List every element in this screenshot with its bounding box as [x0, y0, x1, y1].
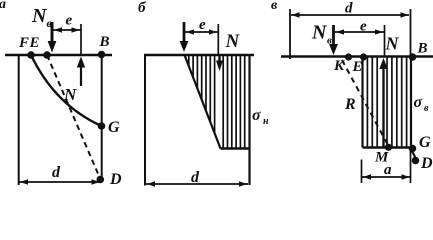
fig a e dimension	[53, 29, 81, 31]
fig a d dimension	[20, 181, 101, 183]
svg-text:б: б	[138, 0, 146, 16]
fig v a right tick	[410, 149, 412, 183]
svg-text:d: d	[345, 1, 353, 17]
fig a e right tick	[80, 24, 82, 55]
fig v reaction arrow	[382, 68, 384, 147]
svg-text:в: в	[271, 0, 278, 13]
fig a base line	[5, 54, 112, 57]
svg-text:d: d	[191, 169, 200, 186]
fig v point E	[360, 53, 367, 60]
svg-text:N: N	[311, 22, 328, 44]
svg-text:N: N	[385, 34, 400, 54]
svg-text:σ: σ	[414, 94, 423, 111]
fig v stress block right edge	[410, 58, 412, 148]
fig b top line	[144, 54, 254, 57]
fig v stress block left edge	[361, 57, 363, 148]
svg-text:D: D	[109, 171, 122, 188]
svg-text:D: D	[420, 155, 433, 172]
svg-text:G: G	[419, 134, 431, 151]
fig v point D	[412, 157, 420, 165]
svg-text:в: в	[424, 103, 429, 114]
svg-text:e: e	[66, 13, 73, 29]
svg-text:F: F	[18, 35, 29, 51]
fig a reaction arrow N	[80, 66, 82, 86]
svg-text:e: e	[360, 19, 367, 35]
fig b left vertical	[144, 55, 146, 186]
fig v e right tick	[384, 25, 386, 56]
svg-text:G: G	[108, 119, 120, 136]
fig v point B	[409, 53, 417, 61]
fig v G-D connector	[412, 150, 417, 159]
fig v d left tick	[289, 9, 291, 59]
fig v force arrow	[332, 25, 335, 45]
fig v point G	[409, 145, 417, 153]
fig a point E	[43, 51, 51, 59]
fig a point G	[98, 122, 106, 130]
svg-text:d: d	[52, 164, 61, 181]
svg-text:N: N	[31, 5, 48, 27]
svg-text:B: B	[417, 41, 428, 57]
fig v a left tick	[361, 160, 363, 184]
fig a point D	[97, 176, 105, 184]
svg-text:σ: σ	[252, 107, 261, 124]
svg-text:a: a	[384, 162, 392, 178]
fig v e dimension	[335, 31, 384, 33]
fig b e dimension	[185, 31, 219, 33]
fig v point K	[345, 53, 352, 60]
fig v base line	[281, 55, 433, 58]
svg-text:E: E	[352, 59, 363, 75]
fig v d right tick	[410, 9, 412, 57]
fig v point M	[385, 144, 392, 151]
fig b small down arrow	[218, 56, 220, 62]
fig a curve F-G	[31, 55, 102, 126]
fig v d dimension	[291, 14, 409, 16]
fig v a dimension	[362, 176, 411, 178]
fig a point F	[27, 51, 35, 59]
svg-text:E: E	[29, 35, 40, 51]
fig b stress slant edge	[185, 55, 221, 149]
svg-text:н: н	[263, 116, 269, 127]
fig v hatch	[367, 58, 406, 148]
fig a right vertical BD	[101, 55, 103, 180]
svg-text:а: а	[0, 0, 6, 12]
fig b hatch	[189, 56, 245, 149]
fig a dashed line E-D	[47, 55, 100, 179]
fig b e right tick	[217, 24, 219, 55]
fig a left vertical	[18, 55, 20, 185]
fig v stress block bottom edge	[363, 146, 412, 148]
fig a force arrow	[51, 22, 54, 42]
svg-text:R: R	[344, 96, 356, 113]
fig v dashed resultant line	[342, 60, 389, 146]
svg-text:N: N	[225, 31, 241, 52]
fig b stress bottom edge	[221, 147, 250, 149]
svg-text:e: e	[199, 17, 206, 33]
fig b d dimension	[146, 183, 248, 185]
fig b right vertical	[248, 55, 250, 185]
svg-text:B: B	[99, 34, 110, 50]
fig a point B	[98, 51, 106, 59]
fig b force arrow	[183, 22, 186, 42]
